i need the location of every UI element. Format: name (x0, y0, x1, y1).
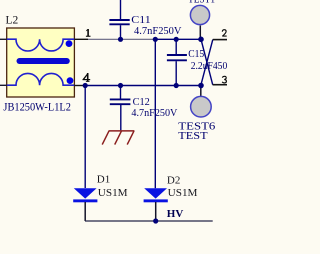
svg-text:L2: L2 (6, 15, 19, 27)
svg-text:4.7nF250V: 4.7nF250V (131, 107, 177, 119)
svg-text:D1: D1 (97, 174, 110, 186)
svg-text:JB1250W-L1L2: JB1250W-L1L2 (3, 100, 71, 114)
svg-text:US1M: US1M (168, 187, 198, 199)
svg-text:US1M: US1M (98, 187, 128, 199)
svg-text:4.7nF250V: 4.7nF250V (134, 25, 182, 37)
svg-text:TEST1: TEST1 (188, 0, 215, 5)
svg-text:HV: HV (167, 208, 184, 220)
svg-text:C15: C15 (188, 48, 204, 60)
svg-text:TEST: TEST (178, 130, 208, 142)
svg-text:D2: D2 (167, 174, 180, 186)
svg-text:2.2uF450V: 2.2uF450V (191, 60, 227, 72)
